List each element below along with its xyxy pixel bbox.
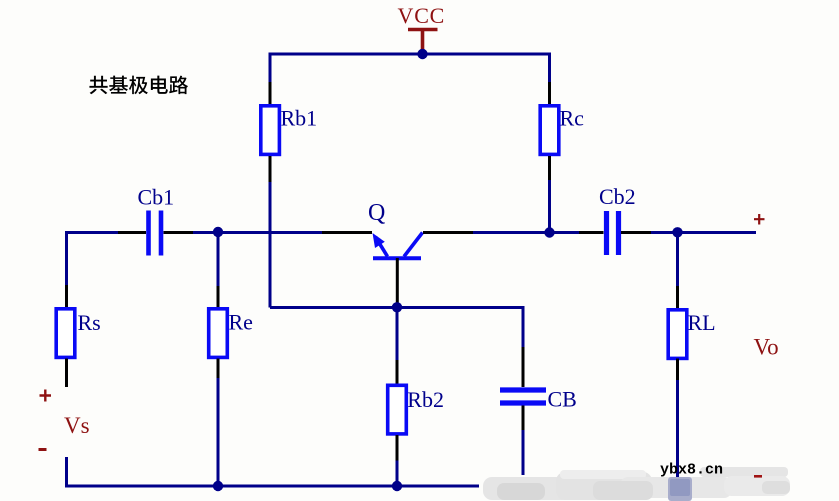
wire: Cb1 to Re node (193, 231, 218, 234)
node: output/RL junction (672, 227, 682, 237)
svg-text:Vo: Vo (754, 335, 779, 360)
svg-text:Re: Re (229, 310, 253, 335)
wire: Re drop from node (navy then black pin) (217, 233, 220, 287)
wire: Rb1 top pin (black) and rail drop (269, 53, 272, 83)
wire: Rc bottom pin (black) (548, 156, 551, 180)
node: VCC junction (417, 49, 427, 59)
watermark red dash (754, 475, 762, 478)
wire: base pin (black) down to base rail (396, 258, 399, 308)
svg-text:Rb2: Rb2 (407, 387, 444, 412)
wire: Rc to collector node (548, 180, 551, 233)
svg-text:VCC: VCC (398, 3, 446, 28)
wire: Cb2 right pin (black) (621, 231, 651, 234)
svg-text:Q: Q (368, 200, 385, 226)
wire: Rb1 to base rail (navy, down then right) (269, 182, 272, 308)
capacitor Cb2 (607, 211, 619, 255)
wire: Cb1 right pin (black) (164, 231, 194, 234)
wire: node to emitter (navy then black pin) (218, 231, 322, 234)
node: emitter/Re junction (213, 227, 223, 237)
wire: ground rail continuing under watermark (397, 485, 479, 488)
wire: CB bottom pin (black then navy into watermark) (522, 406, 525, 431)
wire: ground rail Re to Rb2 (218, 485, 397, 488)
wire: base rail from Rb1 drop to CB drop (270, 306, 525, 309)
svg-text:Vs: Vs (64, 413, 90, 438)
svg-text:Rs: Rs (78, 310, 101, 335)
watermark blur patches (483, 467, 790, 501)
wire: CB drop from base rail (navy then black pin) (522, 306, 525, 347)
wire: RL drop from output node (navy then black pin) (676, 233, 679, 287)
wire: output lead to + terminal (678, 231, 757, 234)
wire: Rb2 top (navy then black pin) (396, 308, 399, 361)
VCC power symbol (408, 30, 438, 55)
wire: Cb1 left pin (black) (118, 231, 146, 234)
wire: input corner at left, down from Cb1 row (65, 231, 118, 285)
wire: RL bottom (black pin then navy into watermark) (676, 359, 679, 381)
svg-text:RL: RL (688, 310, 716, 335)
resistor Rc (540, 106, 559, 155)
transistor Q (373, 233, 423, 259)
wire: Rb2 bottom (black pin then navy) (396, 435, 399, 461)
resistor Rb2 (388, 385, 407, 434)
wire: source - lead down to ground rail (65, 457, 218, 486)
svg-text:CB: CB (548, 387, 577, 412)
wire: node to Cb2 (navy then black pin) (550, 231, 580, 234)
svg-text:Cb2: Cb2 (599, 184, 636, 209)
capacitor CB (500, 390, 546, 403)
svg-text:Rb1: Rb1 (281, 106, 318, 131)
node: ground rail / Rb2 junction (392, 481, 402, 491)
node: collector/Rc/Cb2 junction (544, 227, 554, 237)
wire: collector to Rc node (473, 231, 550, 234)
svg-text:ybx8.cn: ybx8.cn (660, 462, 723, 479)
wire: Rs top pin from input corner (65, 285, 68, 308)
resistor Rs (56, 309, 75, 358)
wire: top rail from Rb1 to Rc (270, 53, 550, 56)
wire: Rb1 bottom pin (black) (269, 156, 272, 182)
source - mark (39, 448, 47, 451)
resistor Rb1 (261, 106, 280, 155)
resistor Re (209, 309, 228, 358)
svg-text:Rc: Rc (560, 106, 585, 131)
wire: Rs bottom pin to source + terminal (65, 359, 68, 388)
capacitor Cb1 (149, 211, 162, 256)
resistor RL (668, 310, 687, 359)
node: ground rail / Re junction (213, 481, 223, 491)
wire: Rc top pin (548, 53, 551, 83)
wire: Re bottom (black pin then navy to ground rail) (217, 359, 220, 379)
wire: Cb2 to RL node (651, 231, 678, 234)
title text 共基极电路 (89, 76, 188, 95)
node: base junction (392, 302, 402, 312)
wire: collector pin (black) (423, 231, 473, 234)
source + mark (40, 390, 52, 402)
svg-text:Cb1: Cb1 (138, 185, 175, 210)
output + terminal mark (754, 214, 765, 225)
